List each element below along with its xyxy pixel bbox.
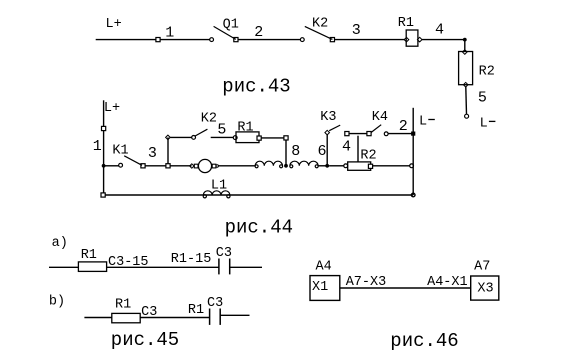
svg-text:K4: K4	[372, 110, 388, 125]
svg-text:K2: K2	[201, 111, 217, 126]
switch Q1	[210, 26, 238, 41]
svg-text:6: 6	[318, 143, 327, 160]
terminal circle on right rail	[410, 164, 414, 168]
svg-text:5: 5	[478, 90, 487, 107]
wire node1 to Q1	[160, 39, 210, 41]
capacitor C3 (fig45b)	[210, 309, 221, 325]
wire junction3 to motor	[170, 165, 192, 167]
svg-text:L: L	[480, 117, 488, 132]
svg-text:A4-X1: A4-X1	[427, 275, 468, 290]
wire K2 to R1	[335, 39, 405, 41]
wire winding2 to K3 junction	[318, 165, 327, 167]
connector X1 box	[310, 276, 340, 301]
svg-text:C3: C3	[207, 296, 223, 311]
svg-text:1: 1	[93, 138, 102, 155]
wire node4 to K4 pivot	[349, 133, 367, 135]
node 2 junction square filled	[411, 132, 415, 136]
node 1 junction (fig44)	[102, 126, 106, 130]
motor M	[190, 159, 219, 172]
resistor R1 (fig43)	[404, 30, 422, 46]
corner node bottom right	[411, 193, 415, 197]
wire b) middle	[140, 317, 209, 319]
svg-text:R1: R1	[398, 16, 414, 31]
svg-text:A7-X3: A7-X3	[346, 275, 387, 290]
resistor R1 (fig45b)	[112, 313, 140, 322]
wire corner down to R2	[464, 40, 466, 52]
resistor R2 (fig43)	[459, 50, 473, 87]
wire X1 to X3	[340, 287, 471, 289]
wire b) right	[220, 314, 249, 316]
svg-text:рис.45: рис.45	[111, 329, 179, 351]
svg-text:K2: K2	[312, 17, 328, 32]
wire Q1 to K2	[238, 39, 300, 41]
wire drop node4 branch to R2 top	[357, 136, 359, 162]
svg-text:L: L	[419, 115, 427, 130]
switch K3	[325, 125, 340, 135]
svg-text:X3: X3	[477, 282, 493, 297]
node diamond top branch left	[166, 135, 171, 140]
switch K4	[367, 125, 388, 136]
svg-text:R2: R2	[479, 65, 495, 80]
junction dot K3	[325, 164, 329, 168]
svg-text:рис.46: рис.46	[390, 330, 458, 352]
svg-text:R2: R2	[360, 149, 376, 164]
wire to K2 contact	[170, 136, 191, 138]
capacitor C3 (fig45a)	[219, 259, 230, 275]
wire down from top branch to middle	[285, 140, 287, 166]
svg-text:L+: L+	[106, 17, 122, 32]
switch K2 (fig44)	[192, 129, 208, 139]
svg-text:рис.43: рис.43	[222, 76, 290, 98]
wire R1 to corner node	[261, 137, 284, 139]
svg-text:2: 2	[254, 24, 263, 41]
svg-text:R1: R1	[81, 248, 97, 263]
svg-text:L1: L1	[211, 179, 227, 194]
svg-text:R1-15: R1-15	[171, 252, 212, 267]
svg-text:3: 3	[352, 22, 361, 39]
wire bottom rail	[104, 194, 414, 196]
svg-text:L+: L+	[104, 101, 120, 116]
svg-text:R1: R1	[115, 298, 131, 313]
corner square node top branch right	[284, 136, 288, 140]
svg-text:A4: A4	[316, 259, 332, 274]
wire motor to inductor	[218, 165, 255, 167]
terminal L- (fig43)	[465, 114, 469, 118]
corner node bottom left	[101, 193, 105, 197]
svg-text:рис.44: рис.44	[225, 217, 293, 239]
wire junction up to top branch	[167, 137, 169, 163]
svg-text:R1: R1	[188, 303, 204, 318]
wire L+ to node 1	[96, 39, 156, 41]
svg-text:C3: C3	[216, 246, 232, 261]
inductor winding 1	[255, 161, 283, 168]
junction dot left rail / K1	[102, 164, 106, 168]
wire R2 to L- terminal	[465, 87, 468, 114]
wire a) middle	[107, 266, 219, 268]
svg-text:3: 3	[148, 145, 157, 162]
svg-text:C3: C3	[141, 305, 157, 320]
wire left rail	[103, 100, 105, 195]
svg-text:A7: A7	[474, 259, 490, 274]
svg-text:2: 2	[399, 118, 408, 135]
svg-text:R1: R1	[237, 120, 253, 135]
svg-text:8: 8	[291, 143, 300, 160]
svg-text:b): b)	[49, 295, 65, 310]
switch K1	[119, 156, 145, 168]
wire R2 to right rail	[373, 165, 410, 167]
node 1 junction	[156, 38, 160, 42]
svg-text:Q1: Q1	[223, 17, 239, 32]
connector X3 box	[471, 276, 499, 300]
svg-text:K3: K3	[320, 110, 336, 125]
inductor winding 2	[290, 161, 318, 168]
wire K4 to right rail	[388, 133, 413, 135]
wire right rail	[412, 108, 414, 195]
wire a) left	[49, 266, 78, 268]
wire K3 junction to R2	[329, 165, 344, 167]
inductor L1	[203, 191, 230, 198]
svg-text:1: 1	[165, 24, 174, 41]
svg-text:K1: K1	[112, 143, 128, 158]
wire a) right	[230, 266, 262, 268]
svg-text:5: 5	[217, 121, 226, 138]
wire R1 to corner	[422, 39, 465, 41]
svg-text:4: 4	[342, 138, 351, 155]
switch K2 (fig43)	[300, 26, 334, 41]
junction dot middle / top branch	[284, 164, 288, 168]
wire K2 to R1 (fig44)	[211, 136, 234, 138]
resistor R1 (fig45a)	[78, 262, 106, 272]
svg-text:X1: X1	[312, 280, 328, 295]
svg-text:C3-15: C3-15	[108, 255, 149, 270]
node 4 terminal square	[345, 132, 349, 136]
wire b) left	[84, 317, 111, 319]
wire K1 to junction 3	[145, 165, 166, 167]
junction square node	[166, 164, 170, 168]
svg-text:4: 4	[435, 21, 444, 38]
junction corner dot	[463, 38, 467, 42]
wire rail to K1	[104, 165, 119, 167]
wire K3 riser	[326, 135, 328, 166]
svg-text:a): a)	[52, 236, 68, 251]
resistor R1 (fig44)	[233, 132, 261, 143]
resistor R2 (fig44)	[344, 162, 373, 170]
